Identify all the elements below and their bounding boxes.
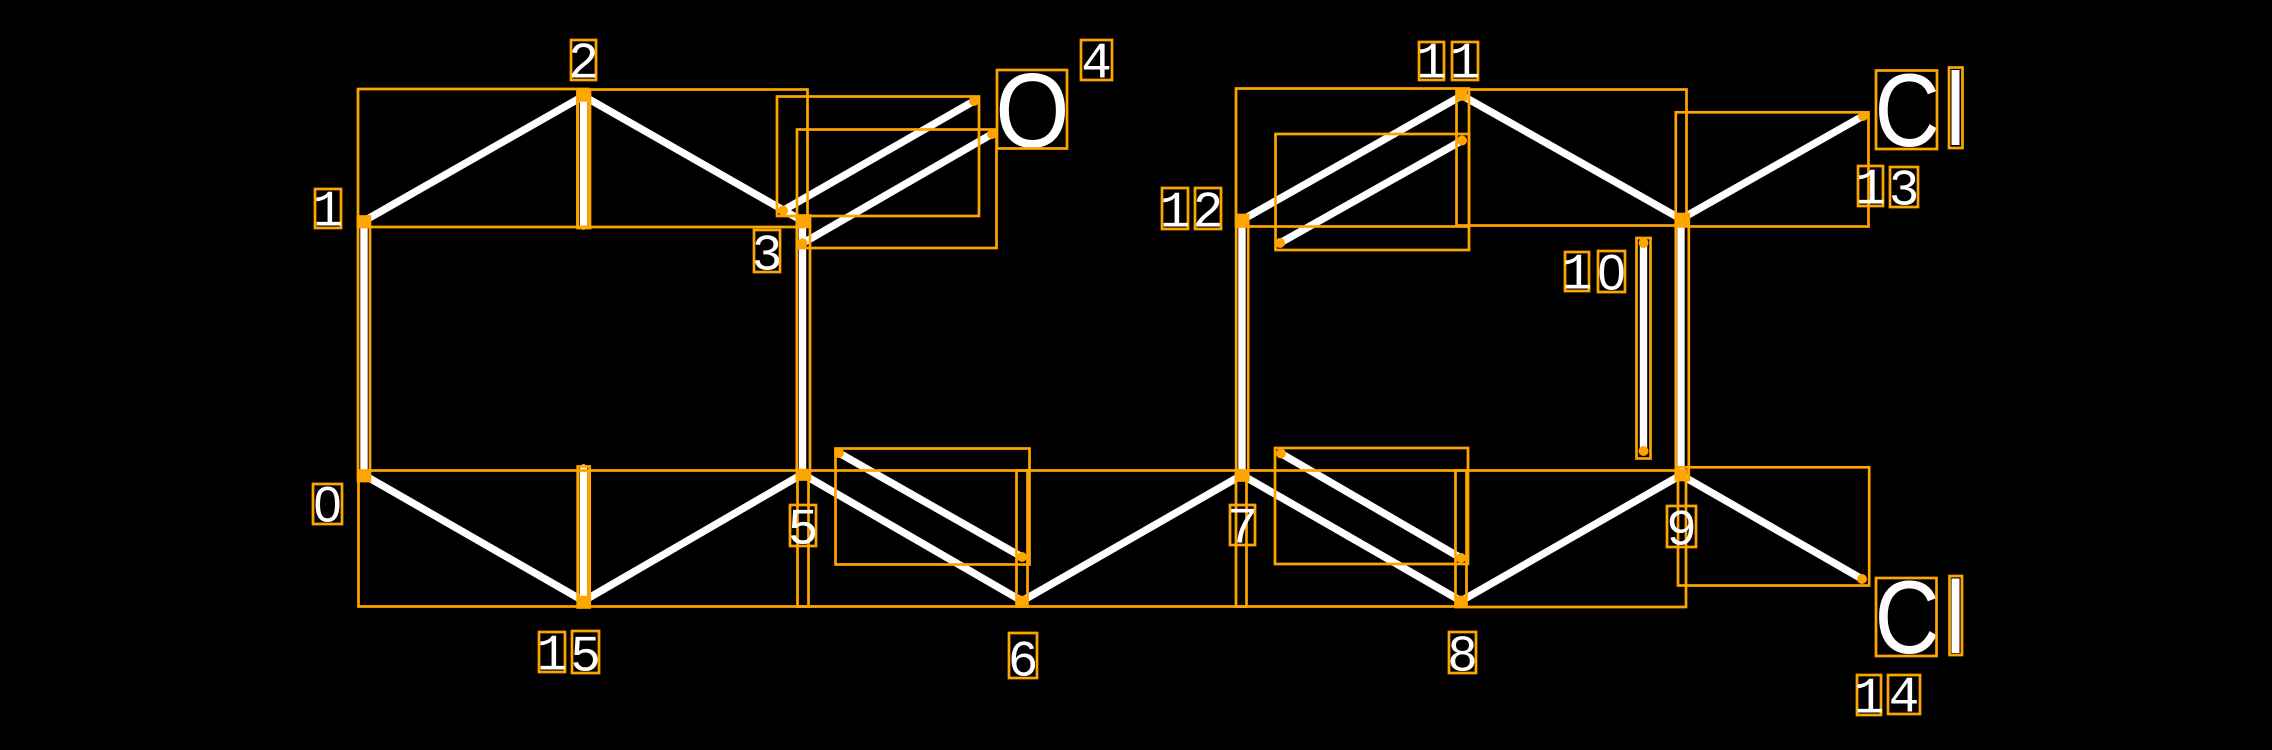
label box 14 digit 4 <box>1888 675 1920 714</box>
node marker atom 1 <box>359 216 370 227</box>
svg-text:1: 1 <box>1562 248 1593 305</box>
bbox bond 11-10 <box>1457 90 1687 226</box>
label box 7 <box>1230 505 1255 545</box>
wire bond 8-9 <box>1461 475 1681 601</box>
svg-text:2: 2 <box>568 37 599 94</box>
node endpoint dot 7-8 inner end <box>1456 553 1466 563</box>
wire bond 2-3 <box>584 96 803 221</box>
bbox bond 10-13 <box>1676 112 1869 226</box>
svg-text:0: 0 <box>314 477 342 533</box>
bbox double bond 12-11 inner <box>1276 134 1470 250</box>
node endpoint dot 7-8 inner start <box>1276 449 1286 459</box>
bbox double bond 5-6 inner <box>836 449 1030 565</box>
bbox atom O 4 <box>997 70 1067 149</box>
node Cl atom 14 glyph l <box>1952 579 1960 654</box>
wire bond 3-5 <box>799 221 806 474</box>
wire bond stub below node 2 <box>580 96 587 226</box>
bbox bond 7-8 <box>1236 471 1467 607</box>
label box 6 <box>1009 633 1037 678</box>
node marker atom 3 <box>797 216 808 227</box>
wire bond 15-5 <box>584 474 803 601</box>
svg-text:7: 7 <box>1227 502 1258 559</box>
node endpoint dot C=O line b end <box>987 129 997 139</box>
svg-text:3: 3 <box>1889 164 1920 221</box>
bbox atom Cl 14 glyph l <box>1950 576 1963 655</box>
svg-text:1: 1 <box>1416 37 1447 94</box>
bbox bond 8-9 <box>1456 471 1687 608</box>
svg-text:3: 3 <box>752 229 783 286</box>
bbox bond 3-5 <box>797 216 810 480</box>
label box 5 <box>790 505 816 546</box>
svg-text:1: 1 <box>1160 186 1191 243</box>
label box 15 digit 5 <box>572 631 599 673</box>
label box 13 digit 3 <box>1890 167 1918 207</box>
label box 3 <box>754 230 780 272</box>
wire bond 5-6 <box>803 474 1023 601</box>
label box 9 <box>1667 506 1696 547</box>
label box 1 <box>315 189 341 228</box>
bbox bond 7-12 <box>1236 215 1248 481</box>
node endpoint dot 12-11 inner end <box>1457 136 1467 146</box>
label box 11 digit 1b <box>1452 42 1478 80</box>
wire C=O double bond line a (3-4) <box>783 101 974 211</box>
node marker atom 0 <box>359 470 370 482</box>
svg-text:4: 4 <box>1889 671 1920 728</box>
node marker atom 10 <box>1676 214 1687 225</box>
svg-text:4: 4 <box>1081 37 1112 94</box>
bbox bond stub 15 <box>578 467 590 608</box>
bbox bond 5-6 <box>798 471 1028 607</box>
svg-text:8: 8 <box>1447 630 1478 687</box>
node endpoint dot 5-6 inner end <box>1017 552 1027 562</box>
svg-text:9: 9 <box>1666 504 1697 561</box>
wire double bond 5-6 inner line <box>839 453 1022 557</box>
svg-text:1: 1 <box>1450 37 1481 94</box>
node marker atom 12 <box>1237 215 1248 226</box>
wire bond 7-12 <box>1238 220 1245 475</box>
node Cl atom 13 glyph l <box>1952 70 1960 145</box>
wire bond 11-10 <box>1462 96 1681 220</box>
bbox C=O line b <box>797 130 997 249</box>
node marker atom 15 <box>578 596 588 607</box>
bbox bond 12-11 <box>1236 89 1469 227</box>
node endpoint dot C=O line a start <box>778 206 788 216</box>
bbox bond 9-14 <box>1678 467 1869 585</box>
label box 2 <box>571 40 596 80</box>
node endpoint dot bond 9-14 end <box>1857 574 1867 584</box>
node endpoint dot 10-9 inner top <box>1639 238 1649 248</box>
wire bond stub above node 15 <box>580 468 587 601</box>
node marker atom 2 <box>578 91 589 102</box>
wire double bond 10-9 inner line <box>1640 243 1647 451</box>
label box 0 <box>313 484 342 524</box>
wire bond 9-14 (to Cl) <box>1681 475 1862 579</box>
bbox double bond 10-9 inner <box>1637 238 1651 459</box>
label box 8 <box>1449 632 1476 673</box>
bbox bond 10-9 <box>1676 214 1689 480</box>
label box 15 digit 1 <box>539 632 565 672</box>
svg-text:1: 1 <box>537 629 568 686</box>
label box 14 digit 1 <box>1857 675 1881 715</box>
node endpoint dot bond 10-13 end <box>1858 111 1868 121</box>
bbox bond 15-5 <box>578 471 809 607</box>
bbox bond 6-7 <box>1017 471 1247 607</box>
label box 12 digit 2 <box>1195 188 1221 229</box>
wire double bond 7-8 inner line <box>1281 454 1461 559</box>
node marker atom 5 <box>797 469 808 480</box>
wire C=O double bond line b (3-4) <box>803 134 993 243</box>
bbox atom Cl 13 glyph C <box>1876 71 1937 150</box>
label box 10 digit 1 <box>1565 252 1589 291</box>
node marker atom 6 <box>1017 596 1028 607</box>
node marker atom 8 <box>1456 596 1467 607</box>
wire bond 12-11 <box>1242 96 1462 221</box>
bbox bond 0-15 <box>359 471 589 607</box>
label box 13 digit 1 <box>1858 166 1883 206</box>
bbox bond 0-1 <box>358 217 370 482</box>
node endpoint dot 5-6 inner start <box>834 448 844 458</box>
wire bond 0-1 <box>360 221 367 475</box>
wire bond 6-7 <box>1022 475 1242 601</box>
node endpoint dot 12-11 inner start <box>1275 238 1285 248</box>
wire bond 10-13 (to Cl) <box>1681 116 1863 219</box>
wire bond 0-15 <box>364 475 584 601</box>
wire bond 10-9 <box>1677 219 1684 475</box>
bbox C=O line a <box>777 97 979 217</box>
node endpoint dot C=O line b start <box>798 238 808 248</box>
node marker atom 7 <box>1237 470 1248 481</box>
svg-text:5: 5 <box>788 503 819 560</box>
bbox bond 2-3 <box>578 90 808 228</box>
node endpoint dot 10-9 inner bottom <box>1639 446 1649 456</box>
svg-text:6: 6 <box>1008 635 1039 692</box>
wire double bond 12-11 inner line <box>1280 141 1462 244</box>
bbox double bond 7-8 inner <box>1275 448 1468 564</box>
svg-text:1: 1 <box>1854 672 1885 729</box>
wire bond 7-8 <box>1242 475 1461 601</box>
svg-text:1: 1 <box>313 185 344 242</box>
label box 10 digit 0 <box>1598 251 1625 292</box>
bbox bond 1-2 <box>358 89 589 227</box>
node marker atom 9 <box>1676 470 1687 481</box>
bbox bond stub 2 <box>578 91 590 229</box>
bbox atom Cl 13 glyph l <box>1949 68 1963 149</box>
label box 12 digit 1 <box>1162 188 1188 229</box>
wire bond 1-2 <box>364 96 584 221</box>
label box 4 <box>1081 40 1112 80</box>
svg-text:0: 0 <box>1598 245 1626 301</box>
node marker atom 11 <box>1457 90 1468 101</box>
label box 11 digit 1a <box>1419 42 1444 80</box>
svg-text:2: 2 <box>1193 186 1224 243</box>
bbox atom Cl 14 glyph C <box>1876 578 1937 656</box>
svg-text:1: 1 <box>1855 163 1886 220</box>
node endpoint dot C=O line a end <box>969 96 979 106</box>
svg-text:5: 5 <box>570 630 601 687</box>
